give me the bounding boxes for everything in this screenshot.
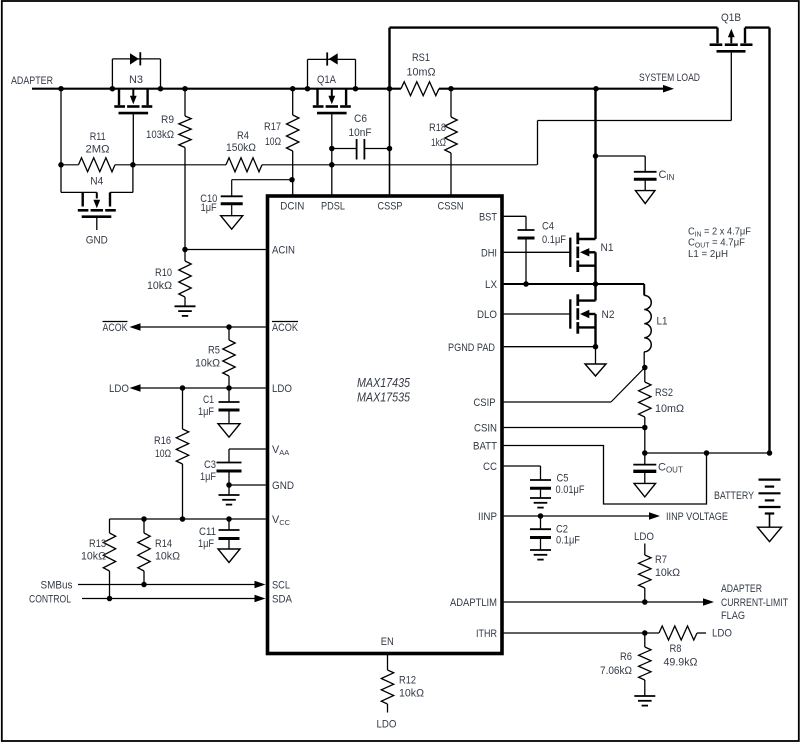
wire BATT routing: [504, 446, 707, 505]
wire CSSP vertical: [388, 28, 390, 89]
capacitor C10: [221, 195, 243, 197]
junction LDO-R16: [180, 385, 186, 391]
transistor Q1B: [716, 28, 718, 44]
transistor Q1A: [316, 89, 318, 106]
junction CSIN-RS2: [642, 425, 648, 431]
svg-text:SYSTEM LOAD: SYSTEM LOAD: [639, 72, 700, 84]
capacitor C1: [228, 388, 230, 402]
junction R11 right / N4: [130, 162, 136, 168]
svg-text:FLAG: FLAG: [721, 610, 745, 622]
resistor R16: [182, 388, 184, 429]
svg-text:CONTROL: CONTROL: [29, 594, 71, 606]
svg-text:10kΩ: 10kΩ: [147, 280, 172, 292]
resistor R10: [184, 250, 186, 262]
wire N1 source to LX: [594, 252, 596, 284]
junction rail-R17: [290, 86, 296, 92]
wire N3 gate to PDSL line: [132, 113, 134, 165]
capacitor COUT: [644, 453, 646, 465]
svg-text:150kΩ: 150kΩ: [226, 142, 256, 154]
svg-text:1μF: 1μF: [200, 471, 216, 483]
svg-text:DCIN: DCIN: [280, 201, 304, 213]
wire CSIP with diagonal: [504, 401, 611, 403]
junction LDO-C1: [226, 385, 232, 391]
svg-text:0.1μF: 0.1μF: [542, 234, 566, 246]
wire down to R11 line: [60, 89, 62, 165]
svg-text:PGND PAD: PGND PAD: [448, 342, 495, 354]
junction COUT: [642, 450, 648, 456]
svg-text:103kΩ: 103kΩ: [146, 129, 174, 141]
svg-text:RS1: RS1: [412, 52, 430, 64]
ground C2: [530, 549, 551, 551]
svg-text:LDO: LDO: [634, 531, 654, 543]
svg-text:Q1A: Q1A: [317, 74, 337, 86]
resistor R9: [184, 89, 186, 116]
svg-text:10kΩ: 10kΩ: [81, 551, 106, 563]
svg-text:CURRENT-LIMIT: CURRENT-LIMIT: [721, 597, 788, 609]
svg-text:ADAPTER: ADAPTER: [11, 75, 53, 87]
svg-text:BST: BST: [479, 211, 497, 223]
wire system load arrow: [596, 88, 664, 90]
wire DHI: [504, 251, 571, 253]
svg-text:1μF: 1μF: [201, 202, 217, 214]
svg-text:C1: C1: [203, 394, 214, 406]
svg-text:10mΩ: 10mΩ: [407, 67, 436, 79]
ground GND pin: [219, 494, 240, 496]
wire LDO with arrow: [130, 384, 141, 392]
wire top rail to Q1B: [390, 26, 718, 28]
wire ACOK with arrow: [130, 323, 141, 331]
ground R6: [634, 695, 655, 697]
wire PDSL gate line: [61, 164, 79, 166]
svg-text:0.01μF: 0.01μF: [556, 484, 585, 496]
capacitor C4: [518, 229, 535, 231]
svg-text:SMBus: SMBus: [41, 580, 73, 592]
svg-text:DLO: DLO: [477, 309, 497, 321]
wire rail RS1 to system load: [439, 88, 596, 90]
svg-text:LDO: LDO: [109, 383, 129, 395]
svg-text:MAX17435: MAX17435: [357, 375, 411, 390]
resistor R8: [659, 626, 697, 640]
svg-text:10kΩ: 10kΩ: [399, 688, 424, 700]
svg-text:2MΩ: 2MΩ: [86, 144, 110, 156]
transistor N3 body diode: [111, 59, 113, 89]
svg-text:CSIN: CSIN: [474, 423, 497, 435]
ground COUT: [634, 483, 656, 497]
ground C10: [221, 216, 243, 230]
svg-text:10Ω: 10Ω: [265, 136, 281, 148]
wire IINP with arrow: [504, 515, 651, 517]
resistor R13: [109, 519, 111, 533]
svg-text:10mΩ: 10mΩ: [655, 403, 684, 415]
svg-text:R4: R4: [237, 130, 249, 142]
wire ACIN: [185, 249, 266, 251]
svg-text:MAX17535: MAX17535: [357, 390, 411, 405]
svg-text:N1: N1: [601, 242, 614, 254]
wire PGND PAD: [504, 346, 596, 348]
junction Q1A gate / C6: [329, 146, 335, 152]
svg-text:1kΩ: 1kΩ: [431, 137, 446, 149]
wire CC: [504, 465, 541, 467]
resistor RS1: [401, 82, 439, 96]
transistor N2: [569, 299, 571, 328]
wire VAA: [229, 448, 266, 450]
wire N4 gate stub: [96, 218, 98, 230]
junction SCL-R14: [141, 582, 147, 588]
ground R10: [175, 305, 196, 307]
junction L1-RS2: [642, 365, 648, 371]
inductor L1: [643, 284, 645, 295]
junction PDSL line: [329, 162, 335, 168]
junction CIN: [593, 153, 599, 159]
svg-text:1μF: 1μF: [198, 406, 214, 418]
resistor R18: [450, 89, 452, 117]
svg-text:EN: EN: [381, 636, 394, 648]
svg-text:C5: C5: [557, 473, 569, 485]
junction Q1A left: [305, 86, 311, 92]
transistor N4: [60, 165, 62, 193]
svg-text:N4: N4: [90, 176, 103, 188]
svg-text:CSSN: CSSN: [438, 201, 464, 213]
junction ACOK-R5: [226, 324, 232, 330]
svg-text:SDA: SDA: [272, 594, 293, 606]
wire ADAPTLIM with arrow: [504, 601, 704, 603]
svg-text:10nF: 10nF: [349, 127, 372, 139]
transistor Q1A body diode: [307, 59, 309, 88]
svg-text:0.1μF: 0.1μF: [556, 535, 580, 547]
wire C10 branch: [232, 179, 292, 181]
junction rail CSSP: [387, 86, 393, 92]
svg-text:GND: GND: [86, 235, 108, 247]
svg-text:ACIN: ACIN: [272, 245, 295, 257]
junction C10 tap: [289, 177, 295, 183]
svg-text:C4: C4: [542, 221, 554, 233]
svg-text:R18: R18: [429, 122, 446, 134]
svg-text:R6: R6: [620, 651, 632, 663]
svg-text:IINP VOLTAGE: IINP VOLTAGE: [666, 511, 728, 523]
svg-text:C11: C11: [199, 526, 216, 538]
svg-text:CC: CC: [483, 461, 497, 473]
wire battery rail: [645, 452, 770, 454]
junction battery: [767, 450, 773, 456]
wire ITHR: [504, 632, 659, 634]
svg-text:ACOK: ACOK: [272, 322, 299, 334]
svg-text:R14: R14: [155, 538, 172, 550]
junction C4-LX: [523, 281, 529, 287]
svg-text:IINP: IINP: [478, 511, 497, 523]
svg-text:R10: R10: [155, 267, 172, 279]
svg-text:10Ω: 10Ω: [155, 448, 171, 460]
resistor R11: [79, 158, 116, 172]
svg-text:R12: R12: [399, 675, 416, 687]
svg-text:R16: R16: [154, 435, 171, 447]
svg-text:BATT: BATT: [473, 441, 497, 453]
junction ITHR-R6-R8: [642, 630, 648, 636]
wire SCL with arrow: [78, 584, 256, 586]
ground PGND: [585, 364, 606, 376]
svg-text:BATTERY: BATTERY: [714, 490, 755, 502]
svg-text:DHI: DHI: [481, 248, 497, 260]
svg-text:Q1B: Q1B: [721, 12, 741, 24]
wire SDA with arrow: [82, 598, 256, 600]
svg-text:R7: R7: [655, 554, 667, 566]
svg-text:7.06kΩ: 7.06kΩ: [600, 665, 632, 677]
wire N2 drain to LX: [594, 284, 596, 301]
svg-text:10kΩ: 10kΩ: [155, 551, 180, 563]
svg-text:1μF: 1μF: [198, 538, 214, 550]
svg-text:R13: R13: [89, 538, 106, 550]
wire GND pin: [229, 484, 266, 486]
svg-text:R5: R5: [208, 345, 220, 357]
svg-text:R8: R8: [670, 643, 682, 655]
junction rail-R11: [58, 86, 64, 92]
svg-text:R11: R11: [90, 131, 106, 143]
svg-text:ITHR: ITHR: [476, 628, 497, 640]
junction rail system-load: [593, 86, 599, 92]
wire adapter rail: [32, 88, 401, 90]
svg-text:SCL: SCL: [272, 580, 290, 592]
junction LX-N1: [593, 281, 599, 287]
wire Q1A gate to PDSL pin: [331, 113, 333, 196]
resistor R7: [644, 544, 646, 556]
junction VCC-R16: [180, 516, 186, 522]
ground CIN: [635, 191, 655, 204]
capacitor C5: [530, 479, 551, 481]
svg-text:ACOK: ACOK: [103, 322, 129, 334]
resistor R4: [226, 158, 262, 172]
junction N3 right: [158, 86, 164, 92]
svg-text:L1: L1: [657, 316, 668, 328]
junction C6 right: [387, 146, 393, 152]
wire R17 to DCIN: [292, 180, 294, 196]
junction VCC-R14: [141, 516, 147, 522]
capacitor CIN: [644, 156, 646, 172]
resistor R5: [228, 327, 230, 340]
ground C5: [530, 497, 551, 499]
svg-text:R9: R9: [161, 114, 174, 126]
svg-text:10kΩ: 10kΩ: [655, 567, 680, 579]
junction Q1A right: [353, 86, 359, 92]
ground C1: [218, 424, 240, 438]
wire DLO: [504, 313, 571, 315]
svg-text:ADAPTER: ADAPTER: [721, 583, 762, 595]
resistor RS2: [644, 368, 646, 383]
capacitor C3: [217, 462, 242, 464]
resistor R14: [143, 519, 145, 533]
svg-text:PDSL: PDSL: [321, 201, 345, 213]
capacitor C11: [228, 519, 230, 530]
junction PGND: [593, 344, 599, 350]
junction SDA-R13: [107, 596, 113, 602]
svg-text:LDO: LDO: [377, 719, 397, 731]
svg-text:L1 = 2μH: L1 = 2μH: [688, 248, 728, 260]
svg-text:LX: LX: [485, 279, 497, 291]
resistor R6: [644, 633, 646, 647]
svg-text:N3: N3: [129, 74, 143, 86]
wire N2 source to PGND: [594, 314, 596, 347]
ground battery: [758, 527, 782, 542]
wire Q1B gate: [730, 53, 732, 121]
svg-text:10kΩ: 10kΩ: [195, 358, 220, 370]
junction VCC-C11: [226, 516, 232, 522]
svg-text:GND: GND: [272, 480, 294, 492]
svg-text:C3: C3: [204, 459, 216, 471]
wire LX: [504, 283, 645, 285]
wire BST: [504, 215, 526, 217]
svg-text:49.9kΩ: 49.9kΩ: [664, 657, 698, 669]
wire CIN branch: [596, 155, 646, 157]
junction R9-R10-ACIN: [182, 247, 188, 253]
junction ADAPTLIM-R7: [642, 599, 648, 605]
svg-text:CSIP: CSIP: [474, 397, 496, 409]
svg-text:LDO: LDO: [712, 628, 732, 640]
transistor N3: [118, 89, 120, 106]
junction rail-R9: [182, 86, 188, 92]
svg-text:CSSP: CSSP: [378, 201, 403, 213]
wire VCC: [110, 518, 266, 520]
svg-text:RS2: RS2: [655, 387, 673, 399]
ground C11: [218, 549, 240, 563]
resistor R17: [292, 89, 294, 115]
svg-text:N2: N2: [602, 309, 615, 321]
transistor N1: [569, 238, 571, 267]
junction BATT-battery rail: [704, 450, 710, 456]
battery B1: [759, 479, 781, 481]
svg-text:C6: C6: [354, 113, 367, 125]
junction N3 left: [110, 86, 116, 92]
junction GND-C3: [226, 482, 232, 488]
junction RS1-R18: [448, 86, 454, 92]
svg-text:ADAPTLIM: ADAPTLIM: [450, 597, 497, 609]
resistor R12: [387, 654, 389, 671]
wire N1 drain up: [594, 89, 596, 239]
svg-text:R17: R17: [264, 121, 281, 133]
op-amp U1 IC body MAX17435/MAX17535: [268, 196, 503, 654]
wire CSIN: [504, 427, 645, 429]
capacitor C2: [540, 516, 542, 529]
wire Q1B source to battery rail: [745, 26, 770, 28]
svg-text:LDO: LDO: [272, 383, 292, 395]
capacitor C6: [356, 139, 358, 160]
junction N4 left: [58, 162, 64, 168]
junction IINP-C2: [538, 513, 544, 519]
